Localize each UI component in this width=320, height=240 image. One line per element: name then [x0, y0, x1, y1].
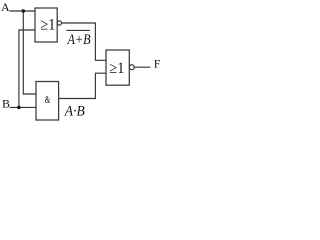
svg-text:A·B: A·B [64, 104, 85, 119]
svg-text:≥1: ≥1 [40, 16, 55, 34]
svg-text:B: B [2, 97, 10, 111]
svg-text:≥1: ≥1 [109, 59, 124, 77]
svg-text:F: F [154, 56, 161, 70]
svg-text:A+B: A+B [67, 31, 91, 47]
svg-text:&: & [45, 94, 51, 106]
svg-text:A: A [1, 0, 10, 14]
